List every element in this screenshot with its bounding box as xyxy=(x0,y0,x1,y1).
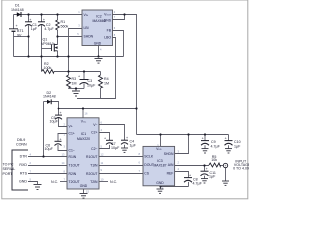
junction IC3 SHDN riser on rail B xyxy=(187,133,189,135)
ground (C11) xyxy=(201,179,208,183)
junction D2 anode on DTR wire xyxy=(42,155,44,157)
wire IC1 VCC stub xyxy=(82,109,84,118)
junction IC1 VCC on 5V rail A xyxy=(82,107,84,109)
battery BT1 xyxy=(9,29,18,32)
svg-text:N.C.: N.C. xyxy=(110,180,117,184)
svg-text:10µF: 10µF xyxy=(45,147,54,151)
capacitor C6 xyxy=(55,141,62,145)
junction IC2 GND on ground rail xyxy=(97,55,99,57)
svg-text:C2+: C2+ xyxy=(91,130,97,134)
wire top rail battery to VIN xyxy=(14,14,83,16)
svg-text:AIN: AIN xyxy=(168,163,174,167)
svg-text:PORT: PORT xyxy=(3,172,14,176)
wire C4 branch V- xyxy=(99,125,125,141)
svg-text:IC1: IC1 xyxy=(81,132,86,136)
svg-text:+: + xyxy=(202,137,204,141)
wire LBO down to divider bottom xyxy=(77,38,116,99)
junction Q1 source on ground rail xyxy=(56,55,58,57)
op IC1 MAX220 xyxy=(62,112,104,194)
svg-text:+: + xyxy=(126,136,128,140)
wire REF row to C8 xyxy=(175,172,189,178)
svg-text:RTS: RTS xyxy=(20,172,28,176)
svg-text:DB-9: DB-9 xyxy=(17,138,25,142)
wire R3 bottom leg xyxy=(68,87,70,90)
svg-text:SERIAL: SERIAL xyxy=(3,167,16,171)
svg-text:R4: R4 xyxy=(104,77,109,81)
wire R4 legs xyxy=(100,72,102,76)
svg-text:+: + xyxy=(189,174,191,178)
junction IC3 VDD on 5V rail B xyxy=(159,133,161,135)
svg-text:1µF: 1µF xyxy=(31,27,38,31)
wire C10 legs xyxy=(228,135,230,141)
svg-text:R2IN: R2IN xyxy=(69,172,77,176)
svg-text:TO PC: TO PC xyxy=(3,163,14,167)
wire C8 ground share xyxy=(161,186,189,188)
capacitor C4 xyxy=(121,140,128,144)
wire DOUT row xyxy=(99,165,143,167)
resistor R4 1M xyxy=(99,75,103,88)
wire IC3 VDD stub xyxy=(160,135,162,147)
svg-text:+: + xyxy=(206,167,208,171)
svg-text:+: + xyxy=(225,164,227,168)
svg-text:C1+: C1+ xyxy=(69,131,75,135)
svg-text:LBI: LBI xyxy=(84,26,89,30)
svg-text:VP0610: VP0610 xyxy=(41,42,54,46)
wire divider ground stem xyxy=(75,89,77,92)
svg-text:C2−: C2− xyxy=(91,147,97,151)
svg-text:+: + xyxy=(43,18,45,22)
svg-text:DOUT: DOUT xyxy=(144,163,154,167)
capacitor C5 xyxy=(55,115,62,119)
node input terminal xyxy=(223,163,227,167)
wire IC1 GND stem xyxy=(83,189,85,194)
capacitor C7 xyxy=(106,140,113,144)
wire divider mid line xyxy=(54,71,101,73)
resistor R1 560k xyxy=(56,20,60,30)
svg-text:C9: C9 xyxy=(211,140,216,144)
wire C3 legs xyxy=(83,72,85,80)
junction battery stub at C1 xyxy=(27,35,29,37)
capacitor C9 xyxy=(201,141,209,146)
svg-text:0 TO 4.096V: 0 TO 4.096V xyxy=(233,166,249,170)
svg-text:T2OUT: T2OUT xyxy=(69,180,80,184)
junction C8 ground at IC3 GND stem xyxy=(159,185,161,187)
wire GND row xyxy=(28,182,38,185)
ground (IC2 GND) xyxy=(95,59,103,64)
diode D1 xyxy=(11,4,24,17)
svg-text:MAX187: MAX187 xyxy=(153,164,166,168)
svg-text:IC3: IC3 xyxy=(157,159,162,163)
svg-text:1µF: 1µF xyxy=(234,145,241,149)
svg-text:GND: GND xyxy=(19,180,27,184)
wire C6 loop C1+ C1- xyxy=(58,134,67,142)
wire D2 anode drop to DTR xyxy=(43,102,45,157)
capacitor C8 xyxy=(184,178,192,183)
wire VSET down to 5V rail xyxy=(113,31,124,57)
wire Q1 gate to C2 drop xyxy=(42,48,52,50)
svg-text:4.7µF: 4.7µF xyxy=(193,181,203,185)
wire SHDN to R1 bottom node xyxy=(58,36,83,38)
svg-text:10µF: 10µF xyxy=(87,84,96,88)
wire SCLK row xyxy=(99,156,143,158)
wire C5 top stub xyxy=(58,109,60,116)
wire bottom ground rail xyxy=(14,56,124,58)
junction C2 top on VIN rail xyxy=(40,13,42,15)
svg-text:R1IN: R1IN xyxy=(69,155,77,159)
svg-text:T1IN: T1IN xyxy=(90,163,98,167)
junction LBI drop on ground rail xyxy=(67,55,69,57)
op IC2 MAX666 xyxy=(77,10,116,52)
wire TXD row xyxy=(28,165,67,167)
svg-text:9V: 9V xyxy=(17,33,22,37)
ground (input jack) xyxy=(222,181,229,185)
svg-text:GND: GND xyxy=(94,41,102,45)
wire SENSE loop up to VOUT xyxy=(113,15,125,20)
svg-text:+: + xyxy=(60,111,62,115)
junction C1 bottom on ground rail xyxy=(27,55,29,57)
svg-text:10µF: 10µF xyxy=(111,146,120,150)
capacitor C3 xyxy=(80,80,89,85)
diode D2 xyxy=(43,91,56,104)
wire battery to C1 stub xyxy=(14,36,29,38)
connector DB-9 xyxy=(12,150,28,190)
junction C9 on rail B xyxy=(204,133,206,135)
wire Q1 source to rail xyxy=(57,51,59,57)
svg-text:1N4148: 1N4148 xyxy=(43,94,56,98)
svg-text:560k: 560k xyxy=(61,24,69,28)
resistor R3 1M xyxy=(67,75,71,88)
svg-text:SNS: SNS xyxy=(104,19,112,23)
svg-text:+: + xyxy=(78,75,80,79)
svg-text:+: + xyxy=(60,137,62,141)
wire VOUT to long vertical xyxy=(113,15,137,135)
junction VOUT vertical on 5V rail A xyxy=(135,107,137,109)
wire C1 legs xyxy=(28,15,30,22)
op IC3 MAX187 xyxy=(139,143,180,191)
wire divider bottom join xyxy=(69,88,85,90)
svg-text:+: + xyxy=(16,24,18,28)
svg-text:LBO: LBO xyxy=(104,36,111,40)
ground (divider) xyxy=(72,91,80,96)
capacitor C10 xyxy=(225,141,233,146)
ground (C10) xyxy=(225,149,232,153)
svg-text:R1OUT: R1OUT xyxy=(86,155,98,159)
svg-text:GND: GND xyxy=(156,181,164,185)
junction C5 top on rail A left end xyxy=(58,108,60,110)
border frame xyxy=(2,0,248,199)
svg-text:CS: CS xyxy=(144,172,149,176)
svg-text:N.C.: N.C. xyxy=(51,180,58,184)
svg-text:GND: GND xyxy=(80,184,88,188)
wire 5V rail B xyxy=(137,134,229,136)
ground (IC3 GND) xyxy=(157,189,164,193)
svg-text:4.7µF: 4.7µF xyxy=(211,145,221,149)
wire R1 top leg xyxy=(57,15,59,21)
svg-text:SHDN: SHDN xyxy=(164,152,174,156)
svg-text:FB: FB xyxy=(107,29,112,33)
svg-text:REF: REF xyxy=(167,172,174,176)
wire LBI down to divider xyxy=(69,29,83,76)
svg-text:R2OUT: R2OUT xyxy=(86,172,98,176)
svg-text:1µF: 1µF xyxy=(209,175,216,179)
wire input jack ground drop xyxy=(225,168,227,181)
junction SNS loop on VOUT wire xyxy=(123,13,125,15)
svg-text:V+: V+ xyxy=(69,125,73,129)
svg-text:RXD: RXD xyxy=(19,163,27,167)
wire 5V rail A xyxy=(59,108,137,110)
wire DTR row xyxy=(28,156,67,158)
junction SHDN at R1 bottom xyxy=(56,35,58,37)
ground (C9) xyxy=(202,149,209,153)
wire D2 cathode to rail A xyxy=(52,102,59,109)
svg-text:R3: R3 xyxy=(72,77,77,81)
svg-text:SCLK: SCLK xyxy=(144,155,154,159)
svg-text:1N4148: 1N4148 xyxy=(11,8,24,12)
capacitor C11 xyxy=(201,171,209,176)
junction C1 top on VIN rail xyxy=(27,13,29,15)
svg-text:1µF: 1µF xyxy=(130,144,137,148)
wire CS row xyxy=(99,173,143,175)
wire NC stub right xyxy=(99,181,108,183)
ground (DB-9 GND) xyxy=(34,185,42,190)
wire AIN row xyxy=(175,165,209,167)
transistor Q1 xyxy=(52,44,58,52)
svg-text:4.7µF: 4.7µF xyxy=(44,27,54,31)
svg-text:DTR: DTR xyxy=(20,155,28,159)
wire D2 anode stub xyxy=(44,101,48,103)
svg-text:MAX220: MAX220 xyxy=(77,137,90,141)
wire C11 stem xyxy=(204,166,206,172)
svg-text:C3: C3 xyxy=(88,79,93,83)
wire IC2 GND drop xyxy=(98,46,100,57)
ground (C4) xyxy=(121,148,128,152)
svg-text:T1OUT: T1OUT xyxy=(69,163,80,167)
wire C9 legs xyxy=(204,135,206,141)
svg-text:T2IN: T2IN xyxy=(90,180,98,184)
wire C7 loop C2+ C2- xyxy=(99,133,110,141)
svg-text:C1−: C1− xyxy=(69,149,75,153)
resistor R5 10k xyxy=(209,163,221,167)
wire IC3 GND stem xyxy=(160,186,162,189)
svg-text:SHDN: SHDN xyxy=(84,34,94,38)
svg-text:CONN: CONN xyxy=(16,143,27,147)
ground (IC1 GND) xyxy=(80,194,88,199)
junction divider bottom ground node xyxy=(75,87,77,89)
wire IC3 SHDN riser xyxy=(175,135,189,154)
svg-text:V−: V− xyxy=(93,123,97,127)
junction C11 on AIN line xyxy=(203,164,205,166)
wire RTS row xyxy=(28,173,67,175)
wire C5 bottom to V+ xyxy=(59,118,68,126)
capacitor C1 xyxy=(25,22,32,27)
wire battery riser xyxy=(13,15,15,29)
svg-text:10µF: 10µF xyxy=(50,120,59,124)
resistor R2 100k xyxy=(42,70,55,74)
wire C2 legs xyxy=(41,15,43,22)
svg-text:C10: C10 xyxy=(234,140,241,144)
junction R3 top on divider line xyxy=(67,70,69,72)
wire R1 bottom to Q1 drain xyxy=(57,30,59,45)
capacitor C2 xyxy=(38,22,45,27)
junction C3 top on divider line xyxy=(83,70,85,72)
svg-text:100k: 100k xyxy=(44,66,52,70)
wire NC stub left xyxy=(60,181,67,183)
svg-text:1M: 1M xyxy=(72,81,77,85)
svg-text:+: + xyxy=(104,136,106,140)
junction R1 top on VIN rail xyxy=(56,13,58,15)
junction C2 bottom on ground rail xyxy=(40,55,42,57)
svg-text:+: + xyxy=(29,18,31,22)
svg-text:+: + xyxy=(225,137,227,141)
svg-text:10k: 10k xyxy=(211,158,217,162)
svg-text:1M: 1M xyxy=(104,81,109,85)
